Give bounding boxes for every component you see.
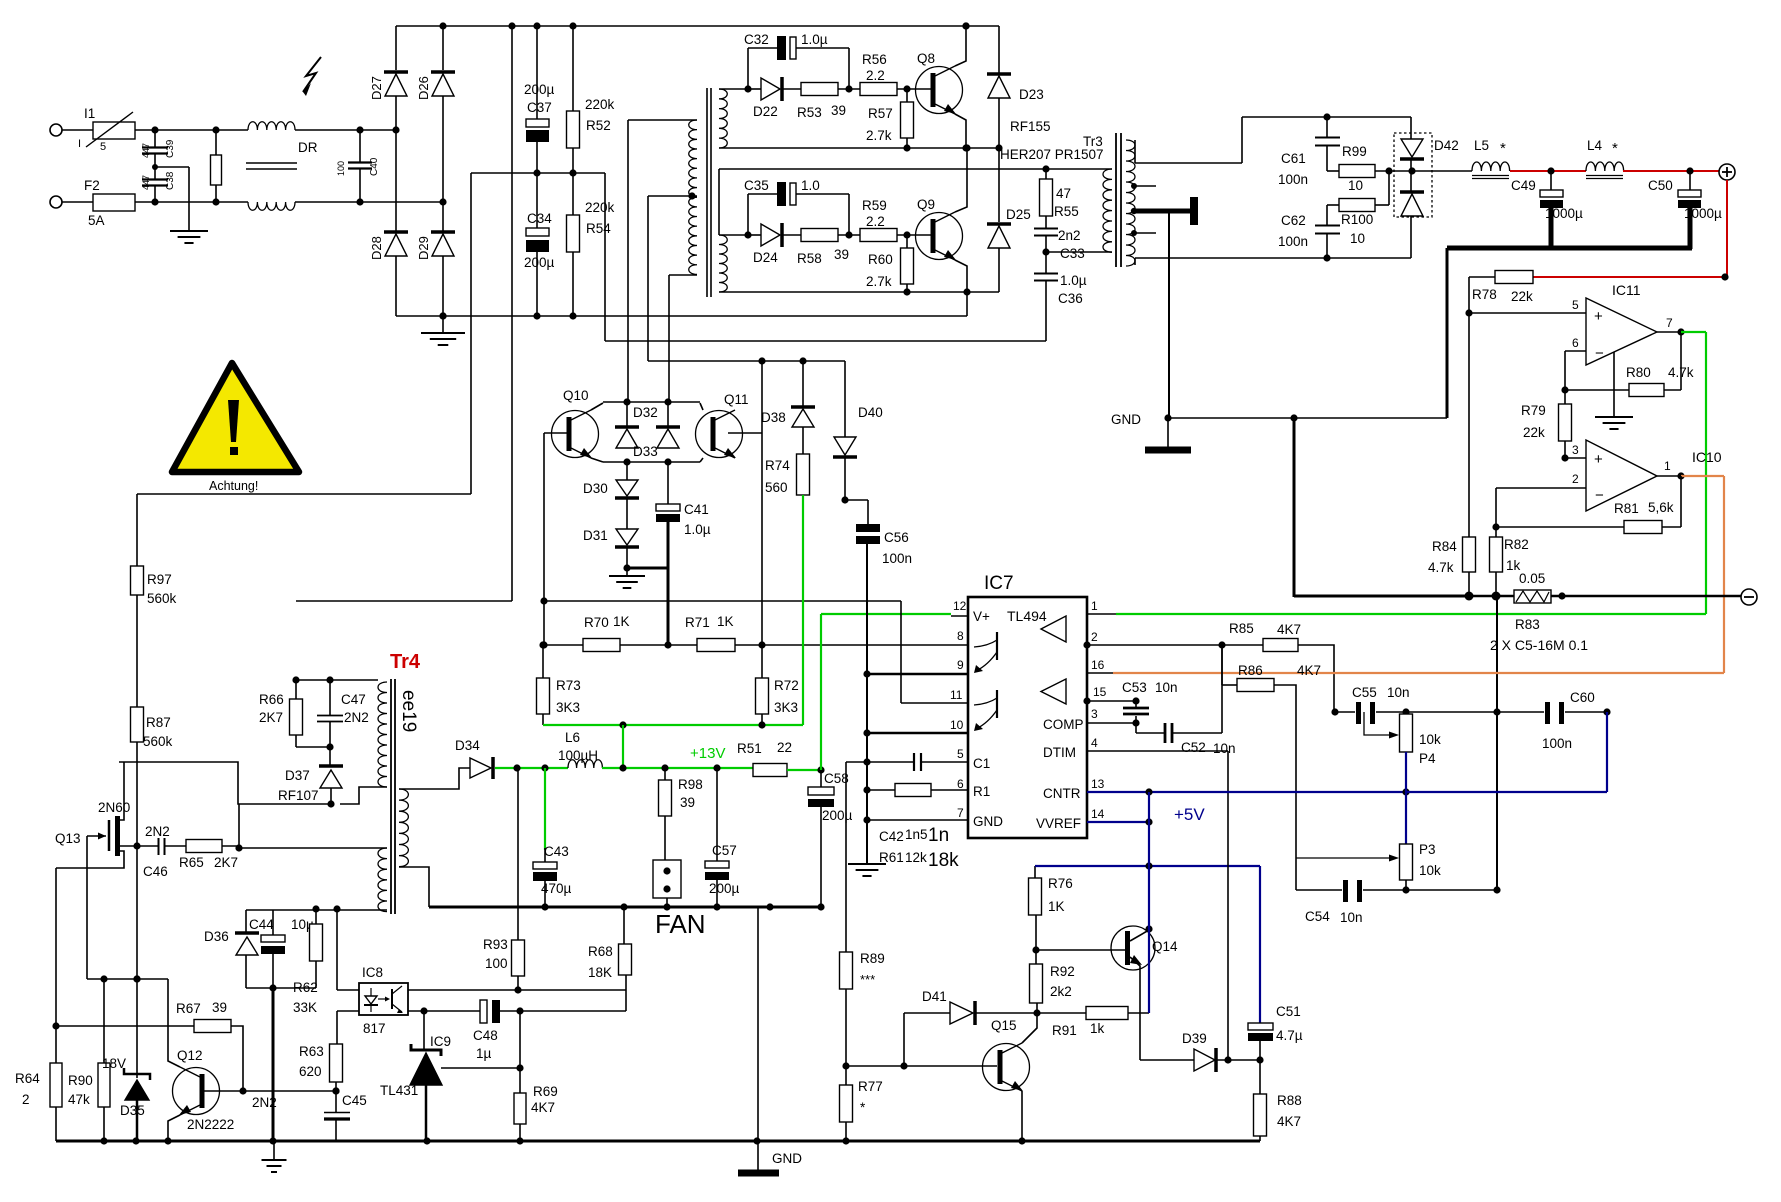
wire +V red (1510, 167, 1586, 174)
svg-text:100n: 100n (1542, 736, 1572, 751)
capacitor C44 (249, 910, 314, 992)
capacitor C55 (1331, 685, 1409, 724)
svg-text:C34: C34 (527, 211, 552, 226)
svg-text:Achtung!: Achtung! (209, 479, 258, 493)
wire blue (1406, 712, 1607, 792)
svg-text:R64: R64 (15, 1071, 40, 1086)
svg-text:P4: P4 (1419, 751, 1436, 766)
svg-text:5: 5 (100, 141, 106, 153)
wire (628, 120, 697, 402)
center tap bar (1131, 197, 1198, 225)
svg-text:C55: C55 (1352, 685, 1377, 700)
svg-text:Q14: Q14 (1152, 939, 1178, 954)
wire (719, 231, 752, 238)
input terminal L (50, 124, 62, 136)
svg-text:C60: C60 (1570, 690, 1595, 705)
resistor R68 (588, 907, 632, 980)
svg-text:C45: C45 (342, 1093, 367, 1108)
svg-text:100n: 100n (1278, 234, 1308, 249)
wire green (1681, 332, 1706, 614)
resistor R91 (1052, 1007, 1149, 1039)
wire mid rail (719, 165, 1050, 235)
svg-text:4.7k: 4.7k (1668, 365, 1694, 380)
resistor R78 (1469, 271, 1533, 305)
wire pin6 (1561, 336, 1586, 394)
wire (845, 989, 847, 1066)
resistor R90 (68, 979, 110, 1141)
wire (246, 987, 316, 989)
svg-text:C48: C48 (473, 1028, 498, 1043)
svg-text:5: 5 (1572, 298, 1579, 312)
svg-text:1000µ: 1000µ (1545, 206, 1583, 221)
svg-text:3: 3 (1091, 707, 1098, 721)
wire (295, 198, 447, 205)
svg-text:2N2222: 2N2222 (187, 1117, 234, 1132)
svg-text:R1: R1 (973, 784, 990, 799)
wire tap (1131, 183, 1156, 236)
svg-text:F2: F2 (84, 178, 100, 193)
svg-text:18K: 18K (588, 965, 612, 980)
diode D40 (833, 361, 883, 504)
resistor R84 (1428, 537, 1476, 601)
capacitor C49 (1511, 171, 1583, 249)
zener D35 18V (102, 979, 150, 1141)
potentiometer P3 (1296, 792, 1441, 894)
wire green 13V (543, 721, 803, 728)
svg-text:D37: D37 (285, 768, 310, 783)
wire (296, 600, 512, 602)
svg-text:817: 817 (363, 1021, 386, 1036)
svg-text:3: 3 (1572, 443, 1579, 457)
svg-text:10: 10 (1348, 178, 1363, 193)
svg-text:C56: C56 (884, 530, 909, 545)
wire (295, 126, 400, 133)
diode D29 (416, 202, 455, 316)
capacitor C48 (473, 1000, 626, 1061)
IC7 internal transistor (974, 632, 997, 673)
diode D30 (583, 462, 639, 529)
resistor R73 (537, 641, 581, 725)
resistor R58 (797, 229, 860, 267)
wire ref (441, 1064, 524, 1071)
svg-text:GND: GND (973, 814, 1003, 829)
wire (625, 975, 627, 1011)
svg-text:GND: GND (772, 1151, 802, 1166)
resistor bleeder (211, 130, 222, 202)
diode D41 (904, 989, 1086, 1066)
wire pin14 blue (1087, 792, 1153, 1013)
svg-text:220k: 220k (585, 200, 615, 215)
winding left (689, 120, 697, 274)
ground (155, 167, 208, 243)
wire (1168, 211, 1170, 418)
svg-text:2N2: 2N2 (145, 824, 170, 839)
wire (1465, 277, 1472, 537)
wire (1551, 592, 1741, 599)
svg-text:R86: R86 (1238, 663, 1263, 678)
svg-text:2.2: 2.2 (866, 214, 885, 229)
wire (168, 1115, 180, 1141)
diode D24 (748, 223, 801, 265)
svg-text:R66: R66 (259, 692, 284, 707)
resistor R89 (840, 762, 885, 989)
svg-text:10n: 10n (1213, 741, 1236, 756)
op-amp IC11 (1586, 282, 1657, 365)
svg-text:3K3: 3K3 (556, 700, 580, 715)
ground (848, 544, 886, 876)
resistor R69 (514, 1084, 558, 1141)
choke DR (246, 122, 318, 211)
inductor L5 (1472, 138, 1510, 179)
capacitor C40 (336, 130, 380, 202)
resistor R100 (1327, 171, 1389, 246)
IC7 internal comparator (1041, 616, 1066, 642)
svg-text:+5V: +5V (1174, 805, 1205, 824)
diode D25 (987, 148, 1031, 292)
wire (1401, 708, 1501, 715)
diode D27 (369, 26, 408, 130)
svg-text:6: 6 (957, 777, 964, 791)
svg-text:2k2: 2k2 (1050, 984, 1072, 999)
transistor Q8 (916, 51, 963, 114)
capacitor C39 (141, 130, 176, 167)
capacitor C36 (1034, 252, 1087, 341)
wire Q14 base (1036, 949, 1125, 951)
wire thick (272, 988, 275, 1141)
capacitor C32 (744, 32, 853, 93)
svg-text:2K7: 2K7 (214, 855, 238, 870)
wire (136, 595, 138, 707)
svg-text:7: 7 (1666, 316, 1673, 330)
svg-text:D42: D42 (1434, 138, 1459, 153)
warning triangle (172, 363, 299, 493)
svg-text:C52: C52 (1181, 740, 1206, 755)
wire (340, 787, 387, 804)
resistor R82 (1490, 527, 1529, 601)
svg-text:R90: R90 (68, 1073, 93, 1088)
svg-text:C36: C36 (1058, 291, 1083, 306)
wire (648, 192, 697, 361)
wire midpoint (471, 169, 605, 176)
wire pin2 (1492, 472, 1586, 531)
svg-text:DR: DR (298, 140, 318, 155)
ground GND (738, 907, 802, 1173)
svg-text:D33: D33 (633, 444, 658, 459)
wire (603, 458, 700, 465)
wire (591, 458, 603, 462)
svg-text:2.7k: 2.7k (866, 128, 892, 143)
svg-text:VVREF: VVREF (1036, 816, 1081, 831)
svg-text:1K: 1K (613, 614, 630, 629)
svg-text:R77: R77 (858, 1079, 883, 1094)
svg-text:R61: R61 (879, 850, 904, 865)
wire (700, 458, 703, 462)
svg-text:47: 47 (1056, 186, 1071, 201)
transistor Q14 (1111, 925, 1178, 1060)
svg-text:100n: 100n (882, 551, 912, 566)
wire green 13V (787, 614, 825, 774)
svg-text:TL431: TL431 (380, 1083, 418, 1098)
svg-text:C1: C1 (973, 756, 990, 771)
capacitor C53 (1122, 680, 1178, 733)
svg-text:D25: D25 (1006, 207, 1031, 222)
wire pin11 (544, 601, 968, 703)
svg-text:*: * (1612, 140, 1618, 157)
transistor Q10 (552, 388, 599, 458)
svg-text:9: 9 (957, 658, 964, 672)
svg-text:200µ: 200µ (822, 808, 853, 823)
wire green long (1116, 613, 1706, 615)
svg-text:R63: R63 (299, 1044, 324, 1059)
wire pin3 (1565, 443, 1586, 458)
wire DTIM (1227, 751, 1229, 1060)
svg-text:2N60: 2N60 (98, 800, 130, 815)
svg-text:7: 7 (957, 806, 964, 820)
svg-text:−: − (1595, 345, 1604, 362)
wire (62, 201, 93, 203)
shunt R83 (1490, 571, 1588, 653)
wire (700, 403, 703, 410)
svg-text:5,6k: 5,6k (1648, 500, 1674, 515)
pin labels right (1036, 599, 1107, 831)
svg-text:C57: C57 (712, 843, 737, 858)
resistor R70 (543, 614, 697, 652)
wire fan rail (429, 903, 825, 910)
svg-text:4K7: 4K7 (1277, 622, 1301, 637)
svg-text:100µH: 100µH (558, 748, 598, 763)
svg-text:+: + (1594, 308, 1603, 325)
svg-text:C54: C54 (1305, 909, 1330, 924)
svg-text:C62: C62 (1281, 213, 1306, 228)
svg-text:0.05: 0.05 (1519, 571, 1545, 586)
svg-text:560: 560 (765, 480, 788, 495)
wire (52, 868, 59, 1073)
diode D28 (369, 130, 408, 316)
svg-text:R65: R65 (179, 855, 204, 870)
svg-text:P3: P3 (1419, 842, 1436, 857)
svg-text:IC8: IC8 (362, 965, 383, 980)
svg-text:1K: 1K (1048, 899, 1065, 914)
resistor R77 (840, 1066, 883, 1141)
resistor R85 (1229, 621, 1334, 712)
wire (955, 260, 971, 296)
svg-text:R73: R73 (556, 678, 581, 693)
svg-text:D28: D28 (369, 236, 384, 260)
labels C42 R61 (879, 825, 959, 871)
transistor Q13 MOSFET (55, 762, 130, 868)
svg-text:RF155: RF155 (1010, 119, 1051, 134)
svg-text:R74: R74 (765, 458, 790, 473)
svg-text:C41: C41 (684, 502, 709, 517)
svg-text:10k: 10k (1419, 863, 1441, 878)
svg-text:1.0µ: 1.0µ (684, 522, 711, 537)
svg-text:IC10: IC10 (1692, 449, 1722, 465)
svg-text:*: * (1500, 140, 1506, 157)
IC IC7 TL494 (968, 573, 1087, 838)
wire green 13V (495, 764, 568, 771)
svg-text:100: 100 (485, 956, 508, 971)
svg-text:IC9: IC9 (430, 1034, 451, 1049)
resistor R63 (299, 1044, 343, 1095)
capacitor C35 (744, 178, 853, 239)
svg-text:4.7µ: 4.7µ (1276, 1028, 1303, 1043)
wire pin4 (1087, 750, 1228, 752)
svg-text:1n: 1n (928, 825, 949, 846)
svg-text:5: 5 (957, 747, 964, 761)
diode D37 (278, 743, 343, 807)
svg-text:2n2: 2n2 (1058, 228, 1081, 243)
resistor R74 (765, 454, 810, 495)
svg-text:C58: C58 (824, 771, 849, 786)
resistor R92 (1030, 915, 1075, 1013)
svg-text:R67: R67 (176, 1001, 201, 1016)
svg-text:R100: R100 (1341, 212, 1373, 227)
wire (1022, 1013, 1037, 1043)
inductor L4 (1586, 138, 1624, 179)
svg-text:R79: R79 (1521, 403, 1546, 418)
wire (648, 357, 845, 364)
wire (605, 173, 1046, 341)
winding Tr3 primary (1046, 169, 1112, 252)
svg-text:D41: D41 (922, 989, 947, 1004)
winding Tr4 primary (378, 682, 387, 787)
resistor R86 (1222, 645, 1321, 858)
wire (1446, 248, 1449, 418)
svg-text:DTIM: DTIM (1043, 745, 1076, 760)
svg-text:C50: C50 (1648, 178, 1673, 193)
thermistor I1 (78, 106, 135, 153)
diode D34 (455, 738, 493, 779)
svg-text:L4: L4 (1587, 138, 1603, 153)
svg-text:1: 1 (1091, 599, 1098, 613)
wire blue (1035, 862, 1260, 1023)
resistor R55 (1040, 169, 1079, 219)
svg-text:D30: D30 (583, 481, 608, 496)
wire (1135, 113, 1411, 163)
svg-text:1.0µ: 1.0µ (1060, 273, 1087, 288)
resistor R53 (797, 83, 860, 121)
wire (133, 742, 140, 983)
svg-text:4: 4 (1091, 736, 1098, 750)
svg-text:10n: 10n (1155, 680, 1178, 695)
svg-text:C46: C46 (143, 864, 168, 879)
potentiometer P4 (1364, 712, 1441, 792)
resistor R57 (866, 89, 914, 152)
svg-text:R84: R84 (1432, 539, 1457, 554)
svg-text:HER207 PR1507: HER207 PR1507 (1000, 147, 1104, 162)
diode D23 (987, 26, 1104, 162)
wire (168, 979, 180, 1067)
svg-text:1.0: 1.0 (801, 178, 820, 193)
diode D38 (761, 361, 815, 454)
wire pin8 (762, 644, 968, 646)
svg-text:GND: GND (1111, 412, 1141, 427)
wire rail (56, 1137, 1260, 1144)
wire (1294, 418, 1471, 597)
wire pin1 out (1657, 459, 1685, 480)
svg-text:R56: R56 (862, 52, 887, 67)
transformer core (707, 88, 711, 297)
svg-text:FAN: FAN (655, 909, 706, 939)
svg-text:6: 6 (1572, 336, 1579, 350)
svg-text:I1: I1 (84, 106, 95, 121)
svg-text:COMP: COMP (1043, 717, 1084, 732)
svg-text:39: 39 (212, 1000, 227, 1015)
IC7 internal comparator (1041, 679, 1066, 704)
svg-text:R85: R85 (1229, 621, 1254, 636)
svg-text:4.7k: 4.7k (1428, 560, 1454, 575)
svg-text:R55: R55 (1054, 204, 1079, 219)
wire (955, 144, 971, 212)
svg-text:1: 1 (1664, 459, 1671, 473)
wire (86, 868, 88, 979)
svg-text:1.0µ: 1.0µ (801, 32, 828, 47)
svg-text:18k: 18k (928, 850, 959, 871)
capacitor C61 (1278, 117, 1340, 187)
svg-text:C33: C33 (1060, 246, 1085, 261)
ground (262, 1141, 287, 1172)
svg-text:R70: R70 (584, 615, 609, 630)
svg-text:11: 11 (950, 688, 963, 702)
svg-text:D40: D40 (858, 405, 883, 420)
svg-text:*: * (860, 1100, 866, 1115)
svg-text:2: 2 (1572, 472, 1579, 486)
thick gnd bus (1447, 246, 1692, 251)
wire (519, 1011, 521, 1093)
svg-text:C35: C35 (744, 178, 769, 193)
svg-text:I: I (78, 138, 81, 150)
svg-text:C32: C32 (744, 32, 769, 47)
capacitor C54 (1296, 858, 1501, 925)
svg-text:33K: 33K (293, 1000, 317, 1015)
capacitor C58 (808, 770, 853, 907)
svg-text:+13V: +13V (690, 745, 725, 762)
resistor R65 (165, 840, 239, 871)
capacitor C42 pin5 (846, 753, 968, 771)
svg-text:2N2: 2N2 (344, 710, 369, 725)
wire pin7 gnd (863, 816, 968, 823)
wire pin15 (1083, 697, 1139, 708)
svg-text:Q13: Q13 (55, 831, 81, 846)
svg-text:RF107: RF107 (278, 788, 319, 803)
shunt reg IC9 TL431 (380, 1011, 451, 1141)
wire (1135, 254, 1411, 265)
svg-text:R81: R81 (1614, 501, 1639, 516)
wire (119, 762, 331, 852)
wire green (622, 725, 624, 769)
capacitor C50 (1648, 171, 1722, 249)
input terminal N (50, 196, 62, 208)
wire (1164, 414, 1447, 421)
wire pin2 (1083, 641, 1263, 648)
svg-text:12k: 12k (905, 850, 927, 865)
winding right lower (719, 235, 727, 292)
svg-text:Q10: Q10 (563, 388, 589, 403)
svg-text:R51: R51 (737, 741, 762, 756)
svg-text:D32: D32 (633, 405, 658, 420)
wire red (1533, 180, 1729, 281)
capacitor C46 (143, 824, 170, 879)
svg-text:C37: C37 (527, 100, 552, 115)
svg-text:447: 447 (141, 175, 151, 190)
fan (653, 860, 706, 939)
resistor R61 pin6 (863, 784, 968, 797)
svg-text:R60: R60 (868, 252, 893, 267)
svg-text:L6: L6 (565, 730, 580, 745)
svg-text:***: *** (860, 972, 875, 987)
resistor R93 (408, 768, 626, 994)
wire (408, 1007, 481, 1014)
